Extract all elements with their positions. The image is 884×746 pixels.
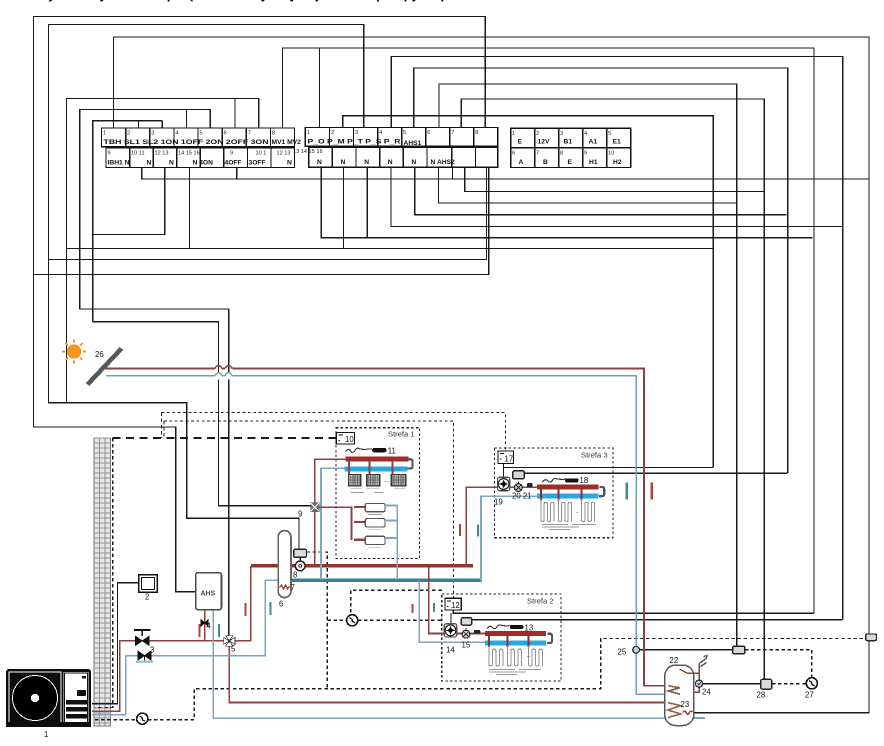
relief valve on tank <box>699 656 707 667</box>
svg-text:MV1 MV2: MV1 MV2 <box>272 139 302 146</box>
svg-text:N: N <box>287 159 292 166</box>
TB2 top numbers <box>307 130 479 136</box>
svg-text:3: 3 <box>560 131 563 137</box>
mini valve 21 <box>527 483 533 487</box>
svg-text:2: 2 <box>331 130 334 136</box>
thermostat box 12 <box>445 598 461 610</box>
pipe blue tank pass <box>213 656 705 719</box>
svg-text:8: 8 <box>272 131 275 137</box>
svg-text:B: B <box>543 159 548 166</box>
svg-text:10: 10 <box>608 150 614 156</box>
wire box2 link <box>92 583 139 704</box>
check valve 15 <box>462 628 470 638</box>
svg-text:Strefa 2: Strefa 2 <box>527 597 554 606</box>
svg-text:5: 5 <box>231 645 236 654</box>
sensor 24 <box>695 680 702 687</box>
wire top T4 <box>282 48 814 613</box>
radiator 2 <box>367 474 380 485</box>
relay box 25-27 <box>733 646 745 654</box>
svg-text:N: N <box>317 159 322 166</box>
TB3 numbers <box>512 131 614 157</box>
svg-text:N 4ON: N 4ON <box>193 159 214 166</box>
flow arrows red/teal pairs <box>198 483 653 638</box>
svg-text:5: 5 <box>608 131 611 137</box>
svg-text:22: 22 <box>670 656 679 665</box>
svg-text:..: .. <box>527 653 531 659</box>
svg-text:P_O P_M P_T P_S P_R: P_O P_M P_T P_S P_R <box>308 138 401 145</box>
pipe zone1 red riser <box>315 459 346 566</box>
pipe zone3 red riser <box>466 487 497 566</box>
wire bundle B7 <box>67 248 714 250</box>
svg-text:8: 8 <box>560 150 563 156</box>
svg-text:4OFF: 4OFF <box>225 159 242 166</box>
dashed branch riser a <box>161 413 163 438</box>
svg-text:TBH SL1 SL2 1ON 1OFF 2ON 2OFF: TBH SL1 SL2 1ON 1OFF 2ON 2OFF 3ON <box>104 139 269 146</box>
zone3 floor loops <box>541 499 595 522</box>
pipe solar red <box>100 369 670 686</box>
wire bundle B8 <box>93 168 165 235</box>
svg-text:9: 9 <box>230 150 233 156</box>
wire strefa3 c <box>524 472 787 474</box>
valve IBH (red line) <box>134 630 151 645</box>
flow pump symbol on dashed line <box>137 713 148 724</box>
svg-text:7: 7 <box>451 130 454 136</box>
wire sensor25 link <box>639 649 733 651</box>
TB1 top labels <box>104 139 302 146</box>
svg-text:12 13: 12 13 <box>155 150 169 156</box>
svg-text:26: 26 <box>95 350 104 359</box>
dashed pump circle link <box>327 619 346 621</box>
solar collector (26) <box>88 349 122 385</box>
dashed bottom bus D3b <box>148 638 866 719</box>
svg-text:N: N <box>411 159 416 166</box>
dashed 27 link <box>745 650 812 678</box>
zone2 blue bar <box>485 641 546 646</box>
wire stub P_O <box>318 48 320 128</box>
zone box Strefa 2 <box>442 594 561 681</box>
wire pump8 stub <box>299 557 301 561</box>
terminal block TB1 top row <box>102 128 295 147</box>
zone2 red bar <box>485 631 546 636</box>
wire strefa2 c <box>472 619 843 621</box>
wire bundle B4 <box>415 167 787 214</box>
svg-text:N: N <box>169 159 174 166</box>
TB1 bottom numbers <box>108 150 291 156</box>
svg-text:..: .. <box>576 509 580 515</box>
pipe solar blue <box>106 376 636 647</box>
wire top T6 <box>414 68 788 473</box>
cold water stub <box>694 717 705 719</box>
AHS box <box>196 573 222 610</box>
svg-text:3: 3 <box>150 646 154 655</box>
dashed thermostat bus D1 <box>113 437 337 439</box>
TB3 labels <box>518 139 622 167</box>
svg-text:H2: H2 <box>613 159 622 166</box>
svg-text:Strefa 1: Strefa 1 <box>388 430 415 439</box>
pipe header red <box>251 564 473 567</box>
svg-text:6: 6 <box>512 150 515 156</box>
svg-text:1: 1 <box>103 131 106 137</box>
svg-text:8: 8 <box>293 571 297 580</box>
svg-text:6: 6 <box>279 600 283 609</box>
pipe zone3 blue riser <box>481 496 537 580</box>
flow meter 27 <box>806 678 817 689</box>
wire top T2 <box>48 25 363 550</box>
wire bundle B10 <box>33 167 488 274</box>
svg-text:12V: 12V <box>538 139 550 146</box>
wire top T10 <box>343 116 713 468</box>
svg-text:E: E <box>568 159 573 166</box>
svg-text:13: 13 <box>525 624 534 633</box>
wire bundle B1 <box>142 168 869 180</box>
svg-text:1: 1 <box>307 130 310 136</box>
svg-text:E: E <box>518 139 523 146</box>
fancoil 2 <box>354 519 398 530</box>
svg-text:AHS: AHS <box>201 591 216 598</box>
DHW tank 22 <box>665 664 700 726</box>
pump controller box 8 <box>294 549 307 557</box>
zone3 bar stubs <box>540 486 542 501</box>
wire top T7 <box>439 84 737 646</box>
svg-text:N: N <box>147 159 152 166</box>
svg-text:17: 17 <box>505 455 514 464</box>
junction box 21 (zone3) <box>513 471 525 479</box>
dashed pump to zone2 <box>358 619 442 621</box>
relay box right border <box>866 634 877 641</box>
valve 4 (AHS red drop) <box>201 620 208 627</box>
wire strefa3 b <box>504 467 714 469</box>
pipe zone3 red link <box>510 486 537 488</box>
svg-text:8: 8 <box>475 130 478 136</box>
zone3 blue bar <box>537 494 599 499</box>
fancoil 1 <box>354 503 398 514</box>
svg-text:AHS1: AHS1 <box>404 140 422 147</box>
zone1 rad stub 1 <box>348 461 350 474</box>
buffer tank 6 <box>278 531 291 598</box>
svg-text:14 15 16: 14 15 16 <box>178 150 200 156</box>
zone2 floor loops <box>489 646 543 667</box>
thermostat box 2 <box>139 575 158 593</box>
wire top T3 <box>114 37 870 713</box>
pipe zone1 fc blue riser <box>396 505 398 579</box>
svg-text:N: N <box>364 159 369 166</box>
valve 3 (blue line) <box>136 651 153 662</box>
pipe zone2 red riser <box>429 566 445 634</box>
wire bundle B7 stub1 <box>189 168 191 249</box>
wire bundle B6 stub <box>366 167 368 238</box>
wire node9 feed <box>93 322 311 506</box>
wire bundle B2 <box>465 167 766 191</box>
zone box Strefa 1 <box>336 428 420 559</box>
wire stub cell2 <box>138 121 140 128</box>
svg-text:25: 25 <box>618 648 627 657</box>
svg-text:4: 4 <box>175 131 178 137</box>
dashed branch riser b <box>163 421 165 438</box>
sensor 25 <box>633 646 640 653</box>
svg-text:3: 3 <box>355 130 358 136</box>
heating cable 11 <box>346 448 387 452</box>
svg-text:A1: A1 <box>589 139 598 146</box>
wire bundle B7 stub2 <box>342 167 344 248</box>
zone3 captions <box>542 525 596 530</box>
svg-text:27: 27 <box>805 691 814 700</box>
svg-text:IBH1 N: IBH1 N <box>108 159 130 166</box>
wire top T8a <box>67 99 259 403</box>
svg-text:9: 9 <box>298 510 302 519</box>
wire bundle B1 stub2 <box>236 168 238 180</box>
terminal block TB3 <box>511 128 631 167</box>
svg-text:7: 7 <box>536 150 539 156</box>
wire top T8b <box>461 99 764 679</box>
pump 14 <box>444 624 456 637</box>
wire sensor24 link <box>702 683 761 685</box>
TB1 bottom labels <box>108 159 293 166</box>
wire top T1 <box>33 17 485 592</box>
pipe header teal <box>292 579 482 582</box>
dashed riser D2 <box>95 438 113 708</box>
svg-text:10 1: 10 1 <box>256 150 267 156</box>
sun icon (26) <box>62 340 86 364</box>
wire strefa2 b <box>450 613 452 623</box>
node 9 mixing valve <box>311 503 319 512</box>
radiator 3 <box>391 474 406 485</box>
wire stub cell3 <box>161 121 163 128</box>
pipe zone1 blue riser <box>321 468 345 579</box>
radiator 1 <box>349 474 361 485</box>
wire strefa2 a <box>453 610 814 613</box>
valve 5 three-way <box>224 636 235 647</box>
svg-text:Przykładowy schemat połączeń e: Przykładowy schemat połączeń elektryczny… <box>28 0 460 2</box>
pump 19 <box>497 477 509 490</box>
svg-text:9: 9 <box>108 150 111 156</box>
TB2 top labels <box>308 138 422 147</box>
svg-text:5: 5 <box>200 131 203 137</box>
svg-text:24: 24 <box>702 688 711 697</box>
radiator captions <box>351 488 406 492</box>
pipe red main low <box>92 566 251 711</box>
svg-text:4: 4 <box>584 131 587 137</box>
svg-text:6: 6 <box>427 130 430 136</box>
dashed pump loop D4b <box>351 590 442 614</box>
relay box 28 <box>761 679 772 689</box>
svg-text:20 21: 20 21 <box>512 492 532 501</box>
dashed bus row 421 <box>164 421 454 598</box>
pump 8 circle <box>295 561 305 571</box>
wall passthrough <box>94 438 111 726</box>
mini valve 16 <box>474 630 480 634</box>
outdoor unit (1) <box>6 669 91 727</box>
svg-text:N: N <box>341 159 346 166</box>
svg-text:12 13: 12 13 <box>277 150 291 156</box>
dashed bottom bus D3 <box>95 719 137 721</box>
dashed 28-27 link <box>772 683 807 685</box>
svg-text:B1: B1 <box>564 139 573 146</box>
thermostat box 17 <box>498 451 513 464</box>
pipe zone1 fc red riser <box>315 507 352 540</box>
svg-text:N AHS2: N AHS2 <box>431 159 456 166</box>
svg-text:10 11: 10 11 <box>131 150 145 156</box>
svg-text:12: 12 <box>451 601 460 610</box>
heating cable 13 <box>487 625 523 629</box>
wire stub cell4 <box>186 110 188 129</box>
dashed pumpbox link D4a <box>307 552 328 687</box>
svg-text:3: 3 <box>151 131 154 137</box>
pipe red tank feed <box>229 646 668 703</box>
wire bundle B1 stub <box>451 167 453 179</box>
pipe zone2 red link <box>458 633 485 635</box>
heating cable 18 <box>542 478 578 482</box>
zone2 captions <box>489 670 541 675</box>
svg-text:14: 14 <box>446 646 455 655</box>
pipe solar blue lower <box>636 653 670 694</box>
pipe AHS blue drop <box>212 610 214 656</box>
svg-text:18: 18 <box>580 476 589 485</box>
svg-text:7: 7 <box>248 131 251 137</box>
zone2 bar stubs <box>488 633 490 647</box>
terminal block TB2 bottom row <box>309 147 498 167</box>
svg-text:3OFF: 3OFF <box>249 159 266 166</box>
svg-text:5: 5 <box>403 130 406 136</box>
wire stub cell6 <box>234 99 236 129</box>
svg-text:7: 7 <box>291 583 295 592</box>
wire bundle B3 <box>438 167 736 203</box>
svg-text:19: 19 <box>494 498 503 507</box>
wire top T12 <box>93 121 163 322</box>
svg-text:H1: H1 <box>589 159 598 166</box>
pipe blue main low <box>92 580 278 714</box>
TB1 top numbers <box>103 131 275 137</box>
svg-text:6: 6 <box>224 131 227 137</box>
svg-text:E1: E1 <box>613 139 621 146</box>
svg-text:13 14 15 16: 13 14 15 16 <box>293 149 323 155</box>
wire top T5 <box>391 57 842 620</box>
svg-text:2: 2 <box>536 131 539 137</box>
wire strefa3 a <box>503 464 505 478</box>
zone box Strefa 3 <box>495 448 614 538</box>
svg-text:1: 1 <box>44 730 48 739</box>
dashed-line pump circle (zone2 control) <box>347 615 358 626</box>
zone1 blue bar <box>345 466 408 471</box>
svg-text:2: 2 <box>127 131 130 137</box>
pipe zone2 blue riser <box>419 580 485 642</box>
zone1 red bar <box>345 457 408 462</box>
svg-text:...: ... <box>385 478 390 484</box>
thermostat box 10 <box>336 432 354 444</box>
zone1 rad stub 2 <box>368 461 370 474</box>
svg-text:A: A <box>519 159 524 166</box>
dashed bus row 412.6 <box>162 413 506 451</box>
junction box 16 (zone2) <box>461 618 472 626</box>
svg-text:23: 23 <box>681 700 690 709</box>
svg-text:28: 28 <box>757 691 766 700</box>
svg-text:Strefa 3: Strefa 3 <box>581 451 608 460</box>
wire bundle B9 <box>48 167 486 259</box>
svg-text:9: 9 <box>584 150 587 156</box>
check valve 20 <box>515 481 523 491</box>
svg-text:11: 11 <box>388 447 396 456</box>
zone1 rad stub 3 <box>392 461 394 474</box>
svg-text:15: 15 <box>462 641 471 650</box>
svg-text:4: 4 <box>379 130 382 136</box>
svg-text:N: N <box>388 159 393 166</box>
svg-text:2: 2 <box>145 593 149 602</box>
TB2 bottom numbers <box>293 149 323 155</box>
terminal block TB2 top row <box>305 128 497 147</box>
pipe AHS red drop <box>204 610 206 641</box>
svg-text:4: 4 <box>207 622 212 631</box>
TB2 bottom labels <box>317 159 455 166</box>
wire bundle B6 <box>321 167 812 238</box>
terminal block TB1 bottom row <box>106 148 295 168</box>
pipe break symbols <box>215 364 232 380</box>
zone3 red bar <box>537 484 599 489</box>
fancoil 3 <box>354 536 398 547</box>
svg-text:1: 1 <box>512 131 515 137</box>
wire bundle B5 <box>391 167 843 226</box>
wire top T9 <box>80 110 229 639</box>
svg-text:10: 10 <box>345 435 354 444</box>
